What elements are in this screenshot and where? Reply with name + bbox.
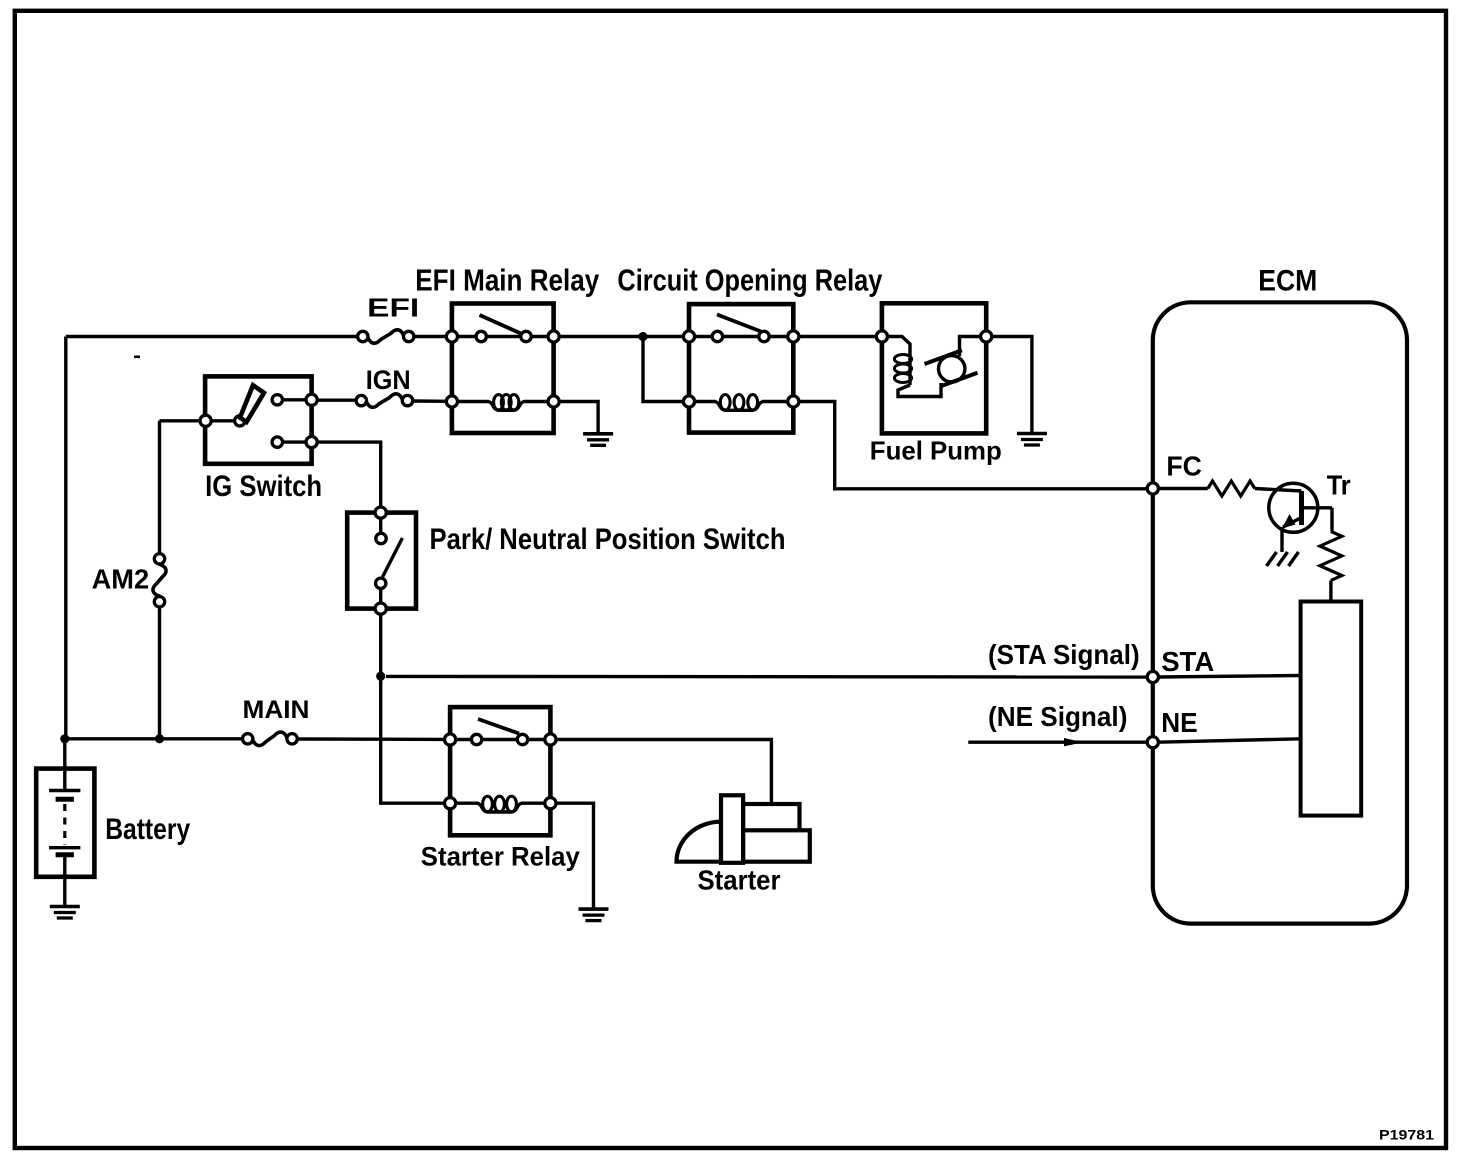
svg-text:(STA Signal): (STA Signal): [988, 639, 1140, 670]
wire NE signal into ECM: [968, 741, 1146, 744]
label Circuit Opening Relay: [617, 263, 883, 298]
svg-text:NE: NE: [1161, 707, 1197, 738]
svg-text:(NE Signal): (NE Signal): [988, 701, 1127, 732]
wire transistor emitter to ground: [1280, 527, 1283, 552]
battery Battery (cells and case): [36, 739, 94, 906]
svg-text:EFI: EFI: [367, 293, 419, 323]
terminal FC: [1147, 483, 1158, 494]
wire FC terminal to resistor: [1158, 487, 1208, 490]
wire Fuel Pump to ground: [992, 337, 1032, 433]
wire MAIN fuse to Starter Relay: [297, 737, 444, 741]
relay EFI Main Relay (box, switch contact, coil, 4 terminals): [446, 304, 559, 434]
wire STA signal (STA node to ECM): [386, 675, 1146, 679]
label FC: [1166, 451, 1202, 482]
wire Park/Neutral switch to STA node: [379, 614, 382, 676]
wire COR bypass junction down to coil: [643, 337, 684, 402]
label AM2: [92, 563, 150, 594]
wire IGN fuse to EFI relay coil: [413, 399, 447, 403]
label STA: [1161, 646, 1214, 677]
svg-text:Fuel Pump: Fuel Pump: [870, 435, 1002, 465]
label (NE Signal): [988, 701, 1127, 732]
svg-text:ECM: ECM: [1258, 264, 1317, 297]
label ECM: [1258, 264, 1317, 297]
svg-text:AM2: AM2: [92, 563, 150, 594]
svg-text:Tr: Tr: [1327, 470, 1351, 501]
wire STA inside ECM: [1158, 676, 1301, 678]
label IG Switch: [205, 470, 322, 503]
ground transistor emitter (hatch): [1267, 552, 1299, 566]
svg-text:STA: STA: [1161, 646, 1214, 677]
label Fuel Pump: [870, 435, 1002, 465]
svg-text:Starter: Starter: [698, 865, 781, 896]
label P19781: [1379, 1127, 1434, 1143]
label Starter Relay: [421, 842, 580, 872]
svg-text:Circuit Opening Relay: Circuit Opening Relay: [617, 263, 883, 298]
wire transistor collector down to resistor: [1330, 508, 1333, 532]
terminal NE: [1147, 737, 1158, 748]
node STA junction: [376, 672, 385, 681]
label EFI: [367, 293, 419, 323]
fuse IGN: [356, 394, 413, 407]
wire STA node down to Starter Relay coil: [381, 676, 445, 803]
stray mark: [134, 356, 140, 359]
wire EFI relay coil to ground: [559, 402, 598, 433]
label (STA Signal): [988, 639, 1140, 670]
wire EFI fuse to EFI Main Relay: [414, 335, 446, 338]
starter motor Starter (solenoid and housing): [677, 795, 810, 863]
svg-text:FC: FC: [1166, 451, 1202, 482]
ground Starter Relay coil: [579, 909, 609, 921]
resistor collector load: [1320, 531, 1342, 580]
ECM internal block: [1301, 602, 1362, 816]
fuel pump Fuel Pump (motor symbol in box): [876, 303, 992, 433]
svg-text:EFI Main Relay: EFI Main Relay: [415, 263, 600, 298]
node battery feed junction: [60, 734, 69, 743]
terminal STA: [1147, 671, 1158, 682]
wire AM2 fuse to MAIN bus: [158, 607, 161, 739]
ECM box: [1153, 302, 1407, 923]
node COR bypass junction: [638, 332, 647, 341]
node AM2 branch junction: [155, 734, 164, 743]
wire EFI Main Relay to Circuit Opening Relay: [559, 335, 684, 338]
svg-text:Starter Relay: Starter Relay: [421, 842, 580, 872]
wire Circuit Opening Relay coil to ECM FC terminal: [799, 402, 1146, 489]
wire Starter Relay to Starter: [556, 740, 771, 805]
svg-text:Battery: Battery: [105, 813, 190, 846]
label MAIN: [243, 696, 310, 724]
wire resistor to ECM internal block: [1329, 580, 1332, 601]
fuse EFI: [358, 330, 414, 343]
relay Circuit Opening Relay (box, switch contact, coil, terminals): [683, 304, 799, 433]
resistor FC series: [1208, 481, 1255, 496]
wire NE inside ECM: [1158, 739, 1301, 742]
ground Fuel Pump: [1017, 434, 1047, 446]
wire IG Switch to Park/Neutral Position Switch: [317, 442, 381, 507]
label Battery: [105, 813, 190, 846]
label Park/ Neutral Position Switch: [430, 523, 786, 556]
label IGN: [366, 365, 411, 395]
ground EFI Main Relay coil: [583, 434, 613, 446]
arrow NE signal direction: [1064, 738, 1083, 746]
svg-text:IG Switch: IG Switch: [205, 470, 322, 503]
fuse AM2: [153, 554, 166, 607]
transistor Tr (NPN in ECM): [1269, 483, 1332, 532]
label Starter: [698, 865, 781, 896]
ground battery negative: [50, 907, 80, 919]
wire Circuit Opening Relay to Fuel Pump: [799, 335, 877, 338]
wire Starter Relay coil to ground: [556, 803, 594, 908]
svg-text:IGN: IGN: [366, 365, 411, 395]
wire battery+ vertical feed and EFI row: [66, 337, 358, 739]
label NE: [1161, 707, 1197, 738]
wire IG Switch to IGN fuse: [312, 399, 357, 402]
switch IG Switch (ignition switch box, key, terminals): [200, 376, 317, 463]
wire MAIN bus battery row: [65, 737, 243, 740]
wire IG Switch to AM2 branch: [160, 421, 201, 554]
svg-text:Park/ Neutral Position Switch: Park/ Neutral Position Switch: [430, 523, 786, 556]
svg-text:MAIN: MAIN: [243, 696, 310, 724]
label Tr: [1327, 470, 1351, 501]
wire resistor to transistor base: [1255, 489, 1302, 492]
svg-text:P19781: P19781: [1379, 1127, 1434, 1143]
relay Starter Relay (box, switch contact, coil, terminals): [445, 707, 557, 835]
label EFI Main Relay: [415, 263, 600, 298]
fuse MAIN: [243, 732, 298, 745]
switch Park/Neutral Position Switch (box, contacts, blade): [347, 507, 416, 614]
